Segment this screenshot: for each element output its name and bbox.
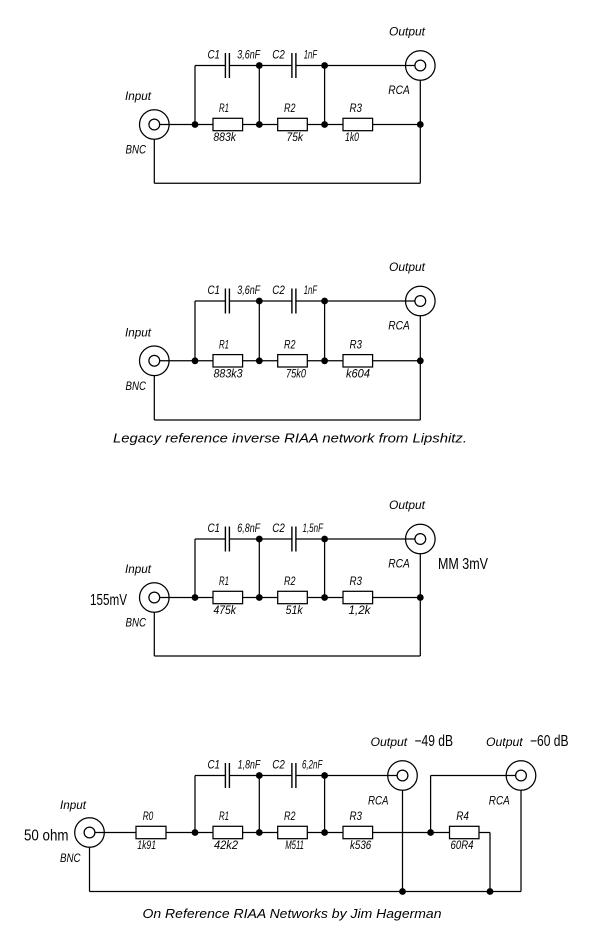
circuit 2: node B junction on resistor rail bbox=[256, 357, 263, 364]
svg-text:1,8nF: 1,8nF bbox=[238, 758, 261, 772]
svg-text:R2: R2 bbox=[284, 574, 296, 588]
circuit 2: wire node C to RCA pin bbox=[325, 300, 415, 302]
circuit 3: capacitor C1 plates bbox=[224, 527, 226, 552]
svg-text:Output: Output bbox=[389, 260, 426, 274]
circuit 4: resistor R2 body bbox=[278, 826, 308, 838]
svg-text:C2: C2 bbox=[272, 283, 285, 297]
svg-text:Output: Output bbox=[371, 735, 408, 749]
circuit 1: BNC connector (input jack) bbox=[140, 110, 170, 140]
svg-text:883k3: 883k3 bbox=[214, 366, 243, 380]
svg-text:C2: C2 bbox=[272, 758, 285, 772]
circuit 4: wire riser node B bbox=[258, 776, 260, 833]
circuit 4: node C junction on cap rail bbox=[321, 772, 328, 779]
circuit 3: wire node C to RCA pin bbox=[325, 538, 415, 540]
circuit 1: wire BNC shield down to ground rail bbox=[153, 139, 155, 183]
svg-text:RCA: RCA bbox=[368, 794, 389, 808]
svg-text:Input: Input bbox=[125, 89, 152, 103]
circuit 3: wire node D down to ground rail bbox=[419, 598, 421, 657]
svg-text:R2: R2 bbox=[284, 809, 296, 823]
svg-text:C1: C1 bbox=[208, 283, 221, 297]
circuit 3: wire C2 to node C bbox=[296, 538, 325, 540]
svg-text:155mV: 155mV bbox=[90, 592, 127, 609]
circuit 3: resistor R1 body bbox=[213, 591, 243, 603]
circuit 4: BNC connector (input jack) bbox=[75, 818, 105, 848]
circuit 3: wire node C to R3 bbox=[325, 597, 343, 599]
svg-text:Output: Output bbox=[389, 25, 426, 39]
svg-text:6,8nF: 6,8nF bbox=[237, 521, 260, 535]
circuit 1: wire node B to C2 bbox=[259, 65, 292, 67]
circuit 2: BNC connector (input jack) bbox=[140, 346, 170, 376]
circuit 3: resistor R3 body bbox=[343, 591, 373, 603]
circuit 2: capacitor C2 plates bbox=[291, 289, 293, 314]
circuit 3: capacitor C2 plates bbox=[291, 527, 293, 552]
circuit 3: wire BNC shield down to ground rail bbox=[153, 612, 155, 656]
circuit 2: resistor R1 body bbox=[213, 355, 243, 367]
circuit 4: wire node A to R1 bbox=[195, 832, 213, 834]
circuit 2: node C junction on cap rail bbox=[321, 298, 328, 305]
circuit 3: BNC connector (input jack) bbox=[140, 583, 170, 613]
svg-text:Output: Output bbox=[389, 498, 426, 512]
circuit 2: wire RCA shield down to node D bbox=[419, 316, 421, 361]
circuit 2: wire node D down to ground rail bbox=[419, 361, 421, 420]
circuit 2: ground return rail bbox=[154, 419, 420, 421]
circuit 2: resistor R2 body bbox=[278, 355, 308, 367]
circuit 2: wire node C to R3 bbox=[325, 360, 343, 362]
circuit 2: wire node B to C2 bbox=[259, 300, 292, 302]
svg-text:C2: C2 bbox=[272, 48, 285, 62]
circuit 4: resistor R4 body bbox=[450, 826, 480, 838]
circuit 1: wire cap rail to C1 bbox=[195, 65, 225, 67]
circuit 4: wire node E to R4 bbox=[431, 832, 450, 834]
svg-text:On Reference RIAA Networks by: On Reference RIAA Networks by Jim Hagerm… bbox=[143, 907, 442, 921]
circuit 1: RCA connector (output jack) bbox=[406, 51, 436, 81]
circuit 1: wire node D down to ground rail bbox=[419, 125, 421, 184]
circuit 2: wire riser node C bbox=[324, 301, 326, 361]
circuit 1: wire R3 to node D bbox=[373, 124, 421, 126]
circuit 3: node A junction bbox=[192, 594, 199, 601]
svg-text:RCA: RCA bbox=[388, 557, 410, 571]
circuit 4: wire riser node C bbox=[324, 776, 326, 833]
circuit 1: wire riser node B bbox=[258, 66, 260, 125]
svg-text:3,6nF: 3,6nF bbox=[237, 283, 260, 297]
circuit 1: ground return rail bbox=[154, 182, 420, 184]
circuit 3: RCA connector (output jack) bbox=[406, 524, 436, 554]
circuit 4: wire BNC shield down to ground rail bbox=[89, 847, 91, 891]
svg-text:R1: R1 bbox=[219, 574, 229, 588]
circuit 3: wire BNC pin to node A bbox=[160, 597, 195, 599]
svg-text:Input: Input bbox=[125, 562, 152, 576]
circuit 1: resistor R3 body bbox=[343, 118, 373, 130]
circuit 4: wire riser node A to cap rail bbox=[194, 776, 196, 833]
circuit 4: node E junction bbox=[427, 829, 434, 836]
svg-text:1,5nF: 1,5nF bbox=[303, 521, 324, 535]
circuit 3: wire R1 to node B bbox=[243, 597, 260, 599]
circuit 1: wire node A to R1 bbox=[195, 124, 213, 126]
circuit 4: wire node B to C2 bbox=[259, 775, 292, 777]
circuit 4: ground rail junction below RCA1 bbox=[399, 888, 406, 895]
circuit 2: wire riser node A to cap rail bbox=[194, 301, 196, 361]
svg-text:k604: k604 bbox=[346, 366, 370, 380]
circuit 4: wire C2 to node C bbox=[296, 775, 325, 777]
svg-text:51k: 51k bbox=[286, 603, 304, 617]
circuit 4: wire R4 ground riser bbox=[489, 833, 491, 892]
circuit 3: wire riser node B bbox=[258, 539, 260, 598]
circuit 1: node A junction bbox=[192, 121, 199, 128]
circuit 1: node B junction on resistor rail bbox=[256, 121, 263, 128]
circuit 2: capacitor C1 plates bbox=[224, 289, 226, 314]
circuit 1: node B junction on cap rail bbox=[256, 62, 263, 69]
svg-text:60R4: 60R4 bbox=[451, 838, 474, 852]
circuit 1: wire node C to R3 bbox=[325, 124, 343, 126]
svg-text:75k0: 75k0 bbox=[286, 366, 306, 380]
circuit 4: wire R2 to node C bbox=[307, 832, 324, 834]
circuit 4: wire R0 to node A bbox=[166, 832, 195, 834]
circuit 2: wire BNC shield down to ground rail bbox=[153, 376, 155, 420]
circuit 3: node D junction bbox=[417, 594, 424, 601]
svg-text:R0: R0 bbox=[143, 809, 154, 823]
svg-text:RCA: RCA bbox=[388, 319, 410, 333]
svg-text:1nF: 1nF bbox=[304, 48, 318, 62]
circuit 2: resistor R3 body bbox=[343, 355, 373, 367]
circuit 3: wire riser node A to cap rail bbox=[194, 539, 196, 598]
circuit 2: wire node B to R2 bbox=[259, 360, 277, 362]
svg-text:Output: Output bbox=[486, 735, 523, 749]
svg-text:475k: 475k bbox=[214, 603, 237, 617]
circuit 4: node B junction on cap rail bbox=[256, 772, 263, 779]
svg-text:R2: R2 bbox=[284, 101, 296, 115]
circuit 2: node A junction bbox=[192, 357, 199, 364]
svg-text:BNC: BNC bbox=[60, 851, 81, 865]
circuit 2: wire R2 to node C bbox=[307, 360, 324, 362]
svg-text:1k91: 1k91 bbox=[137, 838, 156, 852]
svg-text:R3: R3 bbox=[350, 574, 363, 588]
svg-text:1,2k: 1,2k bbox=[349, 603, 372, 617]
circuit 1: resistor R2 body bbox=[278, 118, 308, 130]
circuit 4: wire R3 to node E (crosses RCA1 ground wire) bbox=[373, 832, 431, 834]
circuit 4: wire BNC pin to R0 bbox=[95, 832, 136, 834]
circuit 4: wire C1 to node B bbox=[229, 775, 259, 777]
svg-text:C1: C1 bbox=[208, 521, 221, 535]
circuit 3: wire cap rail to C1 bbox=[195, 538, 225, 540]
circuit 3: node B junction on resistor rail bbox=[256, 594, 263, 601]
svg-text:Input: Input bbox=[125, 325, 152, 339]
svg-text:R1: R1 bbox=[219, 809, 229, 823]
svg-text:R3: R3 bbox=[350, 809, 363, 823]
circuit 4: wire node B to R2 bbox=[259, 832, 277, 834]
svg-text:883k: 883k bbox=[213, 130, 236, 144]
svg-text:RCA: RCA bbox=[489, 794, 510, 808]
svg-text:R2: R2 bbox=[284, 337, 296, 351]
circuit 1: wire node C to RCA pin bbox=[325, 65, 415, 67]
circuit 3: node C junction on resistor rail bbox=[321, 594, 328, 601]
svg-text:C1: C1 bbox=[208, 758, 221, 772]
circuit 1: wire R1 to node B bbox=[243, 124, 260, 126]
circuit 4: wire node C to R3 bbox=[325, 832, 343, 834]
circuit 4: capacitor C2 plates bbox=[291, 763, 293, 788]
svg-text:3,6nF: 3,6nF bbox=[237, 48, 260, 62]
circuit 3: ground return rail bbox=[154, 655, 420, 657]
circuit 2: wire BNC pin to node A bbox=[160, 360, 195, 362]
circuit 4: resistor R3 body bbox=[343, 826, 373, 838]
circuit 4: wire RCA1 shield down to ground rail bbox=[402, 790, 404, 891]
circuit 3: wire node B to C2 bbox=[259, 538, 292, 540]
circuit 2: node C junction on resistor rail bbox=[321, 357, 328, 364]
circuit 2: RCA connector (output jack) bbox=[406, 286, 436, 316]
svg-text:50 ohm: 50 ohm bbox=[24, 828, 69, 845]
circuit 1: wire C1 to node B bbox=[229, 65, 259, 67]
circuit 4: resistor R1 body bbox=[213, 826, 243, 838]
circuit 2: wire C1 to node B bbox=[229, 300, 259, 302]
svg-text:1k0: 1k0 bbox=[345, 130, 359, 144]
circuit 3: resistor R2 body bbox=[278, 591, 308, 603]
circuit 4: wire cap rail to C1 bbox=[195, 775, 225, 777]
circuit 4: node A junction bbox=[192, 829, 199, 836]
circuit 4: RCA connector output 2 bbox=[506, 761, 536, 791]
svg-text:−60 dB: −60 dB bbox=[530, 733, 569, 750]
circuit 1: capacitor C1 plates bbox=[224, 53, 226, 78]
svg-text:6,2nF: 6,2nF bbox=[302, 758, 323, 772]
circuit 4: wire node E feed to RCA2 pin bbox=[431, 775, 516, 777]
svg-text:R3: R3 bbox=[350, 101, 363, 115]
circuit 3: node C junction on cap rail bbox=[321, 536, 328, 543]
circuit 3: wire C1 to node B bbox=[229, 538, 259, 540]
svg-text:M511: M511 bbox=[285, 838, 304, 852]
circuit 2: wire cap rail to C1 bbox=[195, 300, 225, 302]
circuit 3: wire riser node C bbox=[324, 539, 326, 598]
circuit 4: ground rail junction below R4 bbox=[487, 888, 494, 895]
circuit 4: capacitor C1 plates bbox=[224, 763, 226, 788]
circuit 2: wire node A to R1 bbox=[195, 360, 213, 362]
svg-text:MM 3mV: MM 3mV bbox=[438, 556, 489, 573]
circuit 4: node B junction on resistor rail bbox=[256, 829, 263, 836]
circuit 3: wire RCA shield down to node D bbox=[419, 554, 421, 598]
circuit 4: wire node C to RCA1 pin bbox=[325, 775, 398, 777]
circuit 4: wire R1 to node B bbox=[243, 832, 260, 834]
svg-text:−49 dB: −49 dB bbox=[415, 733, 454, 750]
circuit 1: capacitor C2 plates bbox=[291, 53, 293, 78]
svg-text:BNC: BNC bbox=[126, 379, 147, 393]
svg-text:k536: k536 bbox=[350, 838, 371, 852]
circuit 1: node C junction on cap rail bbox=[321, 62, 328, 69]
circuit 3: wire R2 to node C bbox=[307, 597, 324, 599]
circuit 2: node D junction bbox=[417, 357, 424, 364]
svg-text:RCA: RCA bbox=[388, 83, 410, 97]
circuit 4: node C junction on resistor rail bbox=[321, 829, 328, 836]
circuit 4: resistor R0 body bbox=[136, 826, 166, 838]
circuit 1: wire C2 to node C bbox=[296, 65, 325, 67]
circuit 2: node B junction on cap rail bbox=[256, 298, 263, 305]
svg-text:1nF: 1nF bbox=[304, 283, 318, 297]
circuit 4: wire R4 to ground riser bbox=[479, 832, 490, 834]
circuit 3: wire R3 to node D bbox=[373, 597, 421, 599]
svg-text:R1: R1 bbox=[219, 337, 229, 351]
svg-text:BNC: BNC bbox=[126, 616, 147, 630]
svg-text:Legacy reference inverse RIAA: Legacy reference inverse RIAA network fr… bbox=[113, 432, 467, 446]
circuit 4: wire riser node E to output 2 feed bbox=[430, 776, 432, 833]
circuit 1: wire riser node C bbox=[324, 66, 326, 125]
circuit 1: node D junction bbox=[417, 121, 424, 128]
circuit 1: resistor R1 body bbox=[213, 118, 243, 130]
svg-text:R3: R3 bbox=[350, 337, 363, 351]
circuit 2: wire riser node B bbox=[258, 301, 260, 361]
circuit 4: wire RCA2 shield down to ground rail bbox=[520, 790, 522, 891]
svg-text:C1: C1 bbox=[208, 48, 221, 62]
circuit 1: wire R2 to node C bbox=[307, 124, 324, 126]
circuit 1: wire BNC pin to node A bbox=[160, 124, 195, 126]
svg-text:BNC: BNC bbox=[126, 143, 147, 157]
circuit 3: node B junction on cap rail bbox=[256, 536, 263, 543]
circuit 4: ground return rail bbox=[90, 891, 522, 893]
svg-text:42k2: 42k2 bbox=[214, 838, 238, 852]
circuit 1: wire node B to R2 bbox=[259, 124, 277, 126]
circuit 3: wire node B to R2 bbox=[259, 597, 277, 599]
circuit 1: node C junction on resistor rail bbox=[321, 121, 328, 128]
svg-text:C2: C2 bbox=[272, 521, 285, 535]
circuit 4: RCA connector output 1 bbox=[388, 761, 418, 791]
svg-text:R4: R4 bbox=[456, 809, 469, 823]
circuit 1: wire riser node A to cap rail bbox=[194, 66, 196, 125]
circuit 1: wire RCA shield down to node D bbox=[419, 80, 421, 124]
circuit 3: wire node A to R1 bbox=[195, 597, 213, 599]
svg-text:75k: 75k bbox=[287, 130, 304, 144]
svg-text:Input: Input bbox=[60, 798, 87, 812]
circuit 2: wire R1 to node B bbox=[243, 360, 260, 362]
circuit 2: wire R3 to node D bbox=[373, 360, 421, 362]
svg-text:R1: R1 bbox=[219, 101, 229, 115]
circuit 2: wire C2 to node C bbox=[296, 300, 325, 302]
